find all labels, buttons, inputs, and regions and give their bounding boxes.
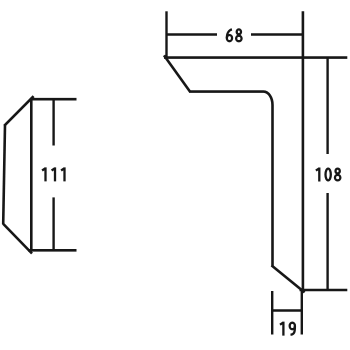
left profile: right edge — [30, 98, 33, 250]
dimension 19: value label "19" — [280, 322, 295, 336]
bracket: top edge with 108 extension to the right — [164, 56, 347, 59]
dimension 111: upper dimension line segment — [52, 99, 54, 145]
bracket: bottom chamfer diagonal of leg — [272, 265, 305, 292]
dimension 19: left extension line — [271, 291, 273, 335]
dimension 111: value label "111" — [42, 167, 64, 181]
dimension 108: lower dimension line segment — [326, 193, 328, 290]
dimension 68: left dimension line segment — [167, 33, 218, 35]
bracket: upper-left underside diagonal — [164, 55, 190, 91]
bracket: underside horizontal with rounded inner corner and inner leg edge — [189, 92, 273, 267]
dimension 68: value label "68" — [227, 29, 242, 41]
dimension 19: dimension line — [272, 309, 302, 311]
left profile: top chamfer diagonal — [4, 96, 33, 126]
left profile: top extension line — [30, 98, 77, 101]
dimension 68: right dimension line segment — [251, 33, 303, 35]
dimension 111: lower dimension line segment — [52, 197, 54, 250]
left profile: bottom extension line — [28, 249, 77, 252]
bracket: right edge of vertical leg with 68 extension above — [302, 11, 305, 290]
dimension 19: right extension line — [301, 290, 303, 335]
bracket: bottom extension line — [300, 289, 348, 292]
dimension 108: value label "108" — [316, 168, 340, 182]
left profile: bottom chamfer diagonal — [3, 224, 32, 254]
left profile: left edge — [3, 125, 5, 224]
dimension 108: upper dimension line segment — [326, 58, 328, 154]
bracket: 68 left extension line — [165, 11, 167, 57]
